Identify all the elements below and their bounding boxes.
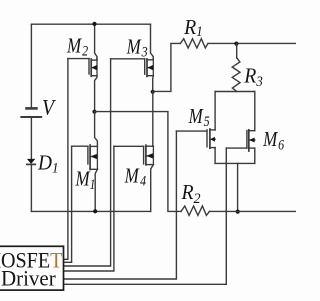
wire M1 source to bottom rail <box>95 169 97 211</box>
wire M3 gate feed down to driver <box>64 59 111 266</box>
wire node to R2 riser <box>95 112 182 212</box>
node dot R2 output <box>236 210 240 214</box>
wire R2 to right edge <box>210 210 297 212</box>
wire top rail <box>31 23 150 25</box>
wire M5 source <box>214 148 216 164</box>
wire R1 to right edge <box>208 42 296 44</box>
transistor M5 <box>207 129 215 148</box>
wire M4 source to bottom rail <box>151 165 154 212</box>
wire M5 gate feed down to driver <box>64 131 177 279</box>
wire M6 drain <box>254 92 256 131</box>
wire M2 gate feed down to driver <box>64 59 68 260</box>
svg-text:Driver: Driver <box>1 266 56 291</box>
resistor R1 <box>180 39 208 48</box>
transistor M1 <box>88 145 98 170</box>
transistor M3 <box>145 58 154 77</box>
transistor M6 <box>247 130 255 151</box>
wire source rail to R2 output node <box>237 163 239 211</box>
wire M2 gate <box>68 58 89 60</box>
wire M5 gate <box>176 130 207 132</box>
wire M4 gate feed down to driver <box>64 146 114 271</box>
wire M1 gate <box>72 145 88 147</box>
resistor R3 <box>232 58 240 92</box>
wire R3 top lead <box>236 43 238 57</box>
wire M4 drain <box>152 92 154 146</box>
wire node to R1 riser <box>153 43 181 91</box>
wire M5/M6 top rail <box>215 91 255 93</box>
wire M2 source to node <box>95 76 97 112</box>
wire bottom rail <box>31 210 150 212</box>
MOSFET driver box <box>0 246 64 290</box>
node dot M3 source <box>151 90 155 94</box>
wire M4 gate <box>114 145 144 147</box>
wire M6 gate <box>226 147 247 149</box>
wire M1 drain <box>95 112 98 147</box>
wire M3 source to node <box>152 76 155 92</box>
wire V source column upper <box>30 24 32 107</box>
node dot M2 source <box>92 110 96 114</box>
wire M5 drain <box>214 92 216 130</box>
wire M3 gate <box>111 58 145 60</box>
transistor M4 <box>144 145 154 165</box>
wire M6 source <box>254 148 256 163</box>
wire M3 drain from top rail <box>151 24 154 60</box>
node dot top rail <box>92 22 96 26</box>
node dot M1 source on rail <box>93 209 97 213</box>
svg-text:V: V <box>42 95 56 120</box>
node dot R1 output <box>234 42 238 46</box>
wire M2 drain from top rail <box>95 24 97 60</box>
battery V <box>21 108 41 117</box>
diode D1 <box>27 159 35 165</box>
wire M5/M6 source rail <box>215 162 255 164</box>
wire diode to bottom rail <box>30 164 32 211</box>
resistor R2 <box>181 206 210 215</box>
wire M1 gate feed down to driver <box>64 146 72 262</box>
transistor M2 <box>89 58 97 77</box>
wire battery to diode <box>30 118 32 159</box>
wire M6 gate feed down to driver <box>64 148 227 284</box>
